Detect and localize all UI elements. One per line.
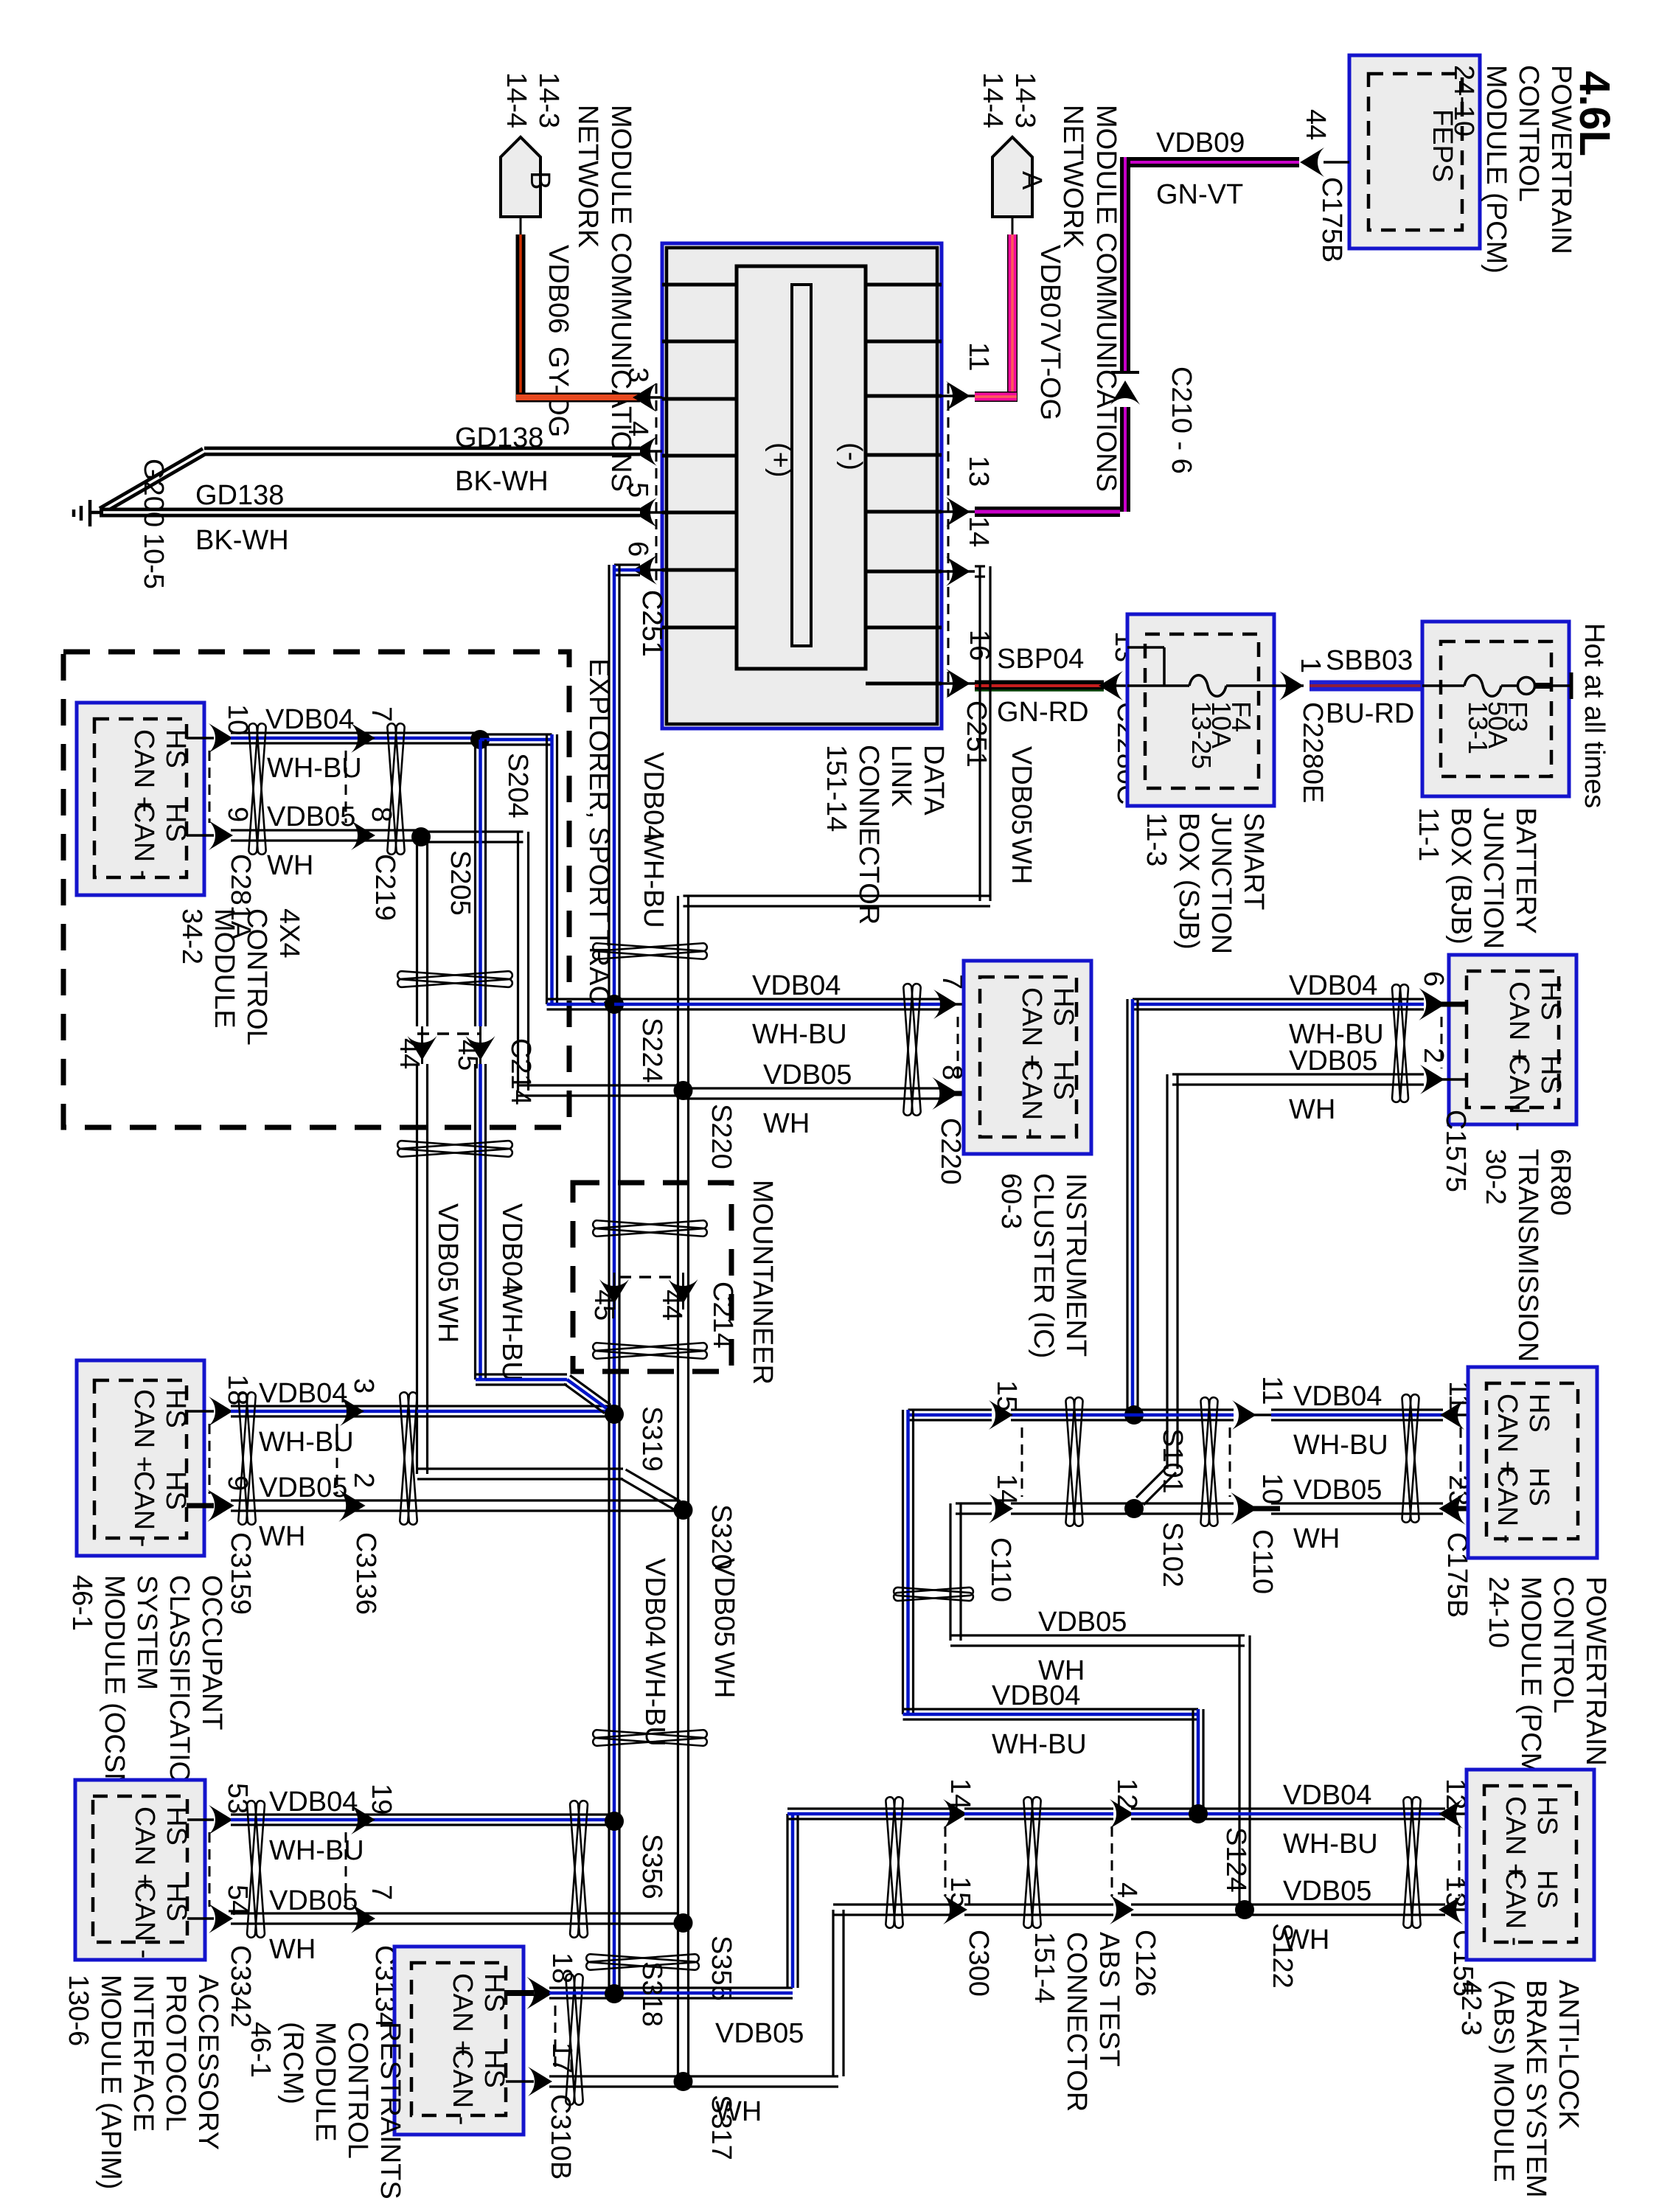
svg-text:VDB05: VDB05 <box>269 1885 358 1916</box>
wire VDB05 drop below C214 <box>416 1064 418 1474</box>
SJB internal wire to fuse <box>1127 684 1189 687</box>
wire GD138 BK-WH pin5 horizontal <box>100 508 640 518</box>
svg-text:S356: S356 <box>636 1834 667 1899</box>
connector C300 dashed <box>945 1826 947 1896</box>
ABS pin 12 arrow <box>1441 1812 1484 1815</box>
SJB pin 13 arrow C2280C <box>1099 671 1123 700</box>
connector C3342 dashed <box>209 1832 211 1907</box>
splice S102 <box>1124 1499 1144 1518</box>
svg-text:8: 8 <box>366 807 397 822</box>
svg-text:S220: S220 <box>706 1104 737 1169</box>
svg-text:18: 18 <box>546 1952 577 1983</box>
wire SBB03 BU-RD <box>1310 681 1422 692</box>
svg-text:7: 7 <box>366 1885 397 1900</box>
wire VDB05 S205 right corner to S220 <box>421 830 524 832</box>
svg-text:C214: C214 <box>505 1038 536 1105</box>
stub from A pentagon <box>1012 217 1014 236</box>
svg-text:GY-OG: GY-OG <box>543 347 574 437</box>
svg-text:C2280E: C2280E <box>1297 702 1328 803</box>
C214 mountaineer pin 45 arrow <box>613 1273 616 1310</box>
C300 pin 15 arrow <box>943 1895 967 1924</box>
wire VDB04 C110-15 corner down <box>908 1408 992 1411</box>
C219 pin 7 arrow <box>351 723 375 753</box>
svg-text:S320: S320 <box>706 1504 737 1570</box>
wire VDB04 OCSM to S319 <box>231 1405 614 1407</box>
svg-text:3: 3 <box>348 1378 379 1394</box>
APIM pin 54 arrow <box>209 1904 233 1933</box>
twisted pair C219 right <box>387 723 405 855</box>
svg-text:GN-VT: GN-VT <box>1156 179 1243 210</box>
svg-text:WH: WH <box>267 850 313 881</box>
PCM pin 11 arrow <box>1443 1413 1486 1416</box>
C300 pin 14 arrow <box>943 1799 967 1829</box>
twisted pair RCM <box>566 1974 583 2105</box>
svg-text:(+): (+) <box>765 442 796 478</box>
DLC pin 3 arrow <box>640 396 662 399</box>
svg-text:BK-WH: BK-WH <box>195 525 289 556</box>
svg-text:VDB04: VDB04 <box>496 1203 527 1292</box>
svg-text:C310B: C310B <box>545 2094 576 2180</box>
svg-text:S224: S224 <box>636 1018 667 1083</box>
svg-text:VDB04: VDB04 <box>259 1378 347 1409</box>
svg-text:VDB05: VDB05 <box>763 1060 852 1091</box>
wire VDB07 VT-OG horizontal into DLC pin 11 <box>975 392 1017 402</box>
wire VDB04 C110 to PCM pin11 <box>1271 1408 1443 1411</box>
DLC inner slot <box>792 285 811 646</box>
6R80 pin 2 arrow <box>1428 1078 1467 1081</box>
wire VDB06 GY-OG vertical <box>516 234 526 402</box>
DLC inner connector body <box>737 266 866 669</box>
wire VDB04 APIM to S356 <box>231 1813 614 1815</box>
svg-text:VDB05: VDB05 <box>709 1558 740 1646</box>
svg-text:WH-BU: WH-BU <box>639 1652 670 1747</box>
svg-text:VDB05: VDB05 <box>715 2018 804 2049</box>
svg-text:VDB04: VDB04 <box>992 1680 1080 1711</box>
MOUNTAINEER dashed box <box>573 1183 731 1371</box>
svg-text:VDB04: VDB04 <box>269 1787 358 1818</box>
svg-text:44: 44 <box>1300 109 1331 140</box>
twisted pair OCSM <box>238 1392 256 1525</box>
stub from B pentagon <box>520 217 522 236</box>
twisted pair on S204/S205 drops lower <box>397 1141 512 1157</box>
SJB pin 1 arrow C2280E <box>1274 684 1304 687</box>
twisted pair APIM <box>247 1801 265 1938</box>
OCSM pin 9 stub <box>187 1503 214 1509</box>
wire VDB04 S204 right corner to S224 <box>480 733 552 735</box>
svg-text:WH-BU: WH-BU <box>267 753 362 784</box>
module APIM box <box>75 1780 205 1960</box>
C126 pin 4 arrow <box>1110 1895 1134 1924</box>
wire VDB05 WH 4X4 to S205 <box>231 829 421 831</box>
wire VDB04 S204-drop corner + diagonal into S319 <box>476 1373 567 1375</box>
twisted pair 4X4 <box>248 723 266 855</box>
twisted pair on S204/S205 drops upper <box>397 971 512 987</box>
connector C214 explorer dashed <box>417 1032 480 1035</box>
svg-text:4.6L: 4.6L <box>1571 71 1618 156</box>
svg-text:S205: S205 <box>445 850 476 916</box>
connector arrow A pentagon <box>992 137 1032 217</box>
svg-text:WH: WH <box>1293 1523 1340 1554</box>
svg-text:WH: WH <box>259 1521 305 1552</box>
APIM pin 54 stub <box>187 1917 214 1920</box>
wire pair C300 to C126 VDB04 <box>964 1807 1113 1809</box>
connector C3134 dashed <box>345 1832 347 1907</box>
twisted pair symbol on main runs above S224 <box>593 943 707 959</box>
svg-text:BK-WH: BK-WH <box>455 466 549 497</box>
wire VDB04 C126 to ABS pin12 via S124 <box>1131 1807 1445 1809</box>
connector C110 left dashed <box>1021 1427 1023 1497</box>
svg-text:11: 11 <box>1256 1376 1287 1405</box>
wire VDB05 C126 to ABS pin13 via S122 <box>1131 1903 1445 1905</box>
wire VDB05 C110 to PCM pin23 <box>1271 1502 1443 1504</box>
twisted pair C3136 right <box>400 1392 417 1525</box>
wire VDB04 main run pin6 to S224 <box>608 565 610 1004</box>
module INSTRUMENT CLUSTER box <box>964 961 1091 1154</box>
fuse F3 50A 13-1 <box>1464 675 1501 697</box>
BJB hot feed stub <box>1534 683 1551 689</box>
inline connector C210-6 bar <box>1111 371 1139 374</box>
svg-text:WH-BU: WH-BU <box>259 1427 354 1458</box>
svg-text:VDB04: VDB04 <box>1293 1381 1382 1412</box>
C219 pin 8 arrow <box>351 821 375 850</box>
svg-text:11: 11 <box>963 342 994 371</box>
connector C3159 dashed <box>209 1424 211 1494</box>
wire VDB04 main run S356 to S318 <box>608 1821 610 1994</box>
twisted pair left of C300 <box>886 1797 903 1928</box>
svg-text:GD138: GD138 <box>455 422 543 453</box>
svg-text:VDB05: VDB05 <box>259 1472 347 1503</box>
svg-text:BU-RD: BU-RD <box>1326 698 1414 729</box>
svg-text:C175B: C175B <box>1316 177 1347 262</box>
svg-text:VDB05: VDB05 <box>1006 746 1037 835</box>
splice S220 <box>674 1081 693 1100</box>
wire VDB04 S204 down pair <box>474 740 476 1026</box>
svg-text:C251: C251 <box>961 700 992 768</box>
twisted pair ABS <box>1403 1797 1421 1928</box>
svg-text:WH-BU: WH-BU <box>752 1019 847 1050</box>
svg-text:9: 9 <box>222 807 253 822</box>
connector C220 dashed <box>957 1017 959 1082</box>
svg-text:VDB05: VDB05 <box>432 1203 463 1292</box>
wire VDB05 main run S220 to S320 <box>677 1091 679 1510</box>
wire VDB07 VT-OG vertical <box>1007 234 1018 402</box>
wire VDB04 main run S319 to S356 <box>608 1414 610 1821</box>
svg-text:45: 45 <box>452 1040 483 1071</box>
svg-text:S124: S124 <box>1220 1827 1251 1893</box>
svg-text:WH-BU: WH-BU <box>1293 1430 1388 1461</box>
svg-text:7: 7 <box>366 706 397 722</box>
EXPLORER SPORT TRAC dashed box <box>63 652 569 1127</box>
splice S317 <box>674 2072 693 2091</box>
wire VDB09 vertical lower segment to pin 13 <box>1120 407 1130 512</box>
connector C110 right dashed <box>1229 1427 1231 1497</box>
SJB internal bus bar <box>1127 646 1164 649</box>
svg-text:C3159: C3159 <box>225 1532 256 1615</box>
svg-text:15: 15 <box>945 1877 975 1907</box>
wire VDB06 GY-OG horizontal into DLC pin 3 <box>516 393 640 403</box>
connector C251 dashed line right <box>947 383 950 697</box>
C214 mountaineer pin 44 arrow <box>682 1273 684 1310</box>
svg-text:WH-BU: WH-BU <box>992 1729 1087 1760</box>
DLC pin 11 arrow <box>942 394 975 397</box>
C110 left pin 14 arrow <box>989 1494 1013 1523</box>
OCSM pin 18 arrow <box>209 1397 233 1426</box>
wire VDB04 S224 to IC pin7 <box>614 998 946 1000</box>
svg-text:14-4: 14-4 <box>977 72 1008 128</box>
svg-text:4: 4 <box>1111 1882 1142 1898</box>
svg-text:13: 13 <box>963 456 994 487</box>
svg-text:VDB04: VDB04 <box>1283 1780 1371 1811</box>
svg-text:C300: C300 <box>963 1930 994 1997</box>
PCM pin 23 arrow <box>1443 1506 1486 1512</box>
svg-text:VDB04: VDB04 <box>265 704 354 735</box>
svg-text:SBB03: SBB03 <box>1326 645 1413 676</box>
wire VDB05 S220 to IC pin8 <box>684 1087 947 1089</box>
connector C310B dashed <box>554 2006 557 2070</box>
inline connector C210-6 arrow <box>1110 380 1140 405</box>
BJB battery junction box <box>1422 622 1569 796</box>
wire VDB04 feed to S124 horizontal <box>903 1708 1199 1710</box>
connector C126 dashed <box>1111 1826 1113 1896</box>
wire VDB05 feed to S122 vertical <box>1238 1635 1240 1910</box>
wire VDB04 row through S101 <box>1011 1408 1134 1411</box>
wire VDB05 6R80 corner and diagonal to S102 <box>1172 1073 1424 1075</box>
svg-text:6: 6 <box>622 541 653 557</box>
svg-text:2: 2 <box>348 1472 379 1488</box>
C110 right pin 10 arrow <box>1231 1492 1257 1525</box>
svg-text:B: B <box>524 171 555 189</box>
fuse F3 terminal circle <box>1501 684 1517 687</box>
wire VDB05 feed to S122 horizontal <box>950 1634 1245 1636</box>
svg-text:VDB05: VDB05 <box>1293 1475 1382 1506</box>
svg-text:S355: S355 <box>706 1935 737 2001</box>
svg-text:S102: S102 <box>1157 1522 1188 1587</box>
wire VDB05 feed vertical from pin14 <box>978 566 981 901</box>
wire VDB05 APIM to S355 <box>231 1912 678 1914</box>
4X4 pin 9 stub <box>187 834 214 837</box>
twisted pair C110 right <box>1200 1397 1218 1526</box>
svg-text:VDB04: VDB04 <box>752 970 841 1001</box>
splice S101 <box>1124 1405 1144 1425</box>
svg-text:C251: C251 <box>636 590 667 657</box>
svg-text:18: 18 <box>222 1374 253 1405</box>
svg-text:C1575: C1575 <box>1440 1110 1471 1192</box>
svg-text:A: A <box>1016 171 1047 190</box>
connector C155 dashed <box>1458 1826 1461 1896</box>
splice S122 <box>1235 1900 1254 1919</box>
pin 44 stub of FEPS <box>1324 161 1349 164</box>
svg-text:2: 2 <box>1418 1048 1449 1063</box>
6R80 pin 6 arrow C1575 <box>1428 1002 1467 1007</box>
APIM pin 53 arrow <box>209 1805 233 1834</box>
svg-text:14: 14 <box>963 516 994 547</box>
svg-text:WH: WH <box>763 1108 810 1139</box>
RCM pin 18 arrow C310B <box>526 1977 553 2009</box>
svg-text:C3136: C3136 <box>350 1532 381 1615</box>
wire VDB05 C110-14 corner down <box>956 1502 992 1504</box>
wire VDB05 pin14 corner segment <box>975 565 985 567</box>
svg-text:4: 4 <box>622 421 653 437</box>
wire VDB09 GN-VT horizontal from FEPS <box>1125 157 1299 167</box>
svg-text:S101: S101 <box>1157 1428 1188 1494</box>
twisted pair symbol on main runs above S318 <box>586 1954 699 1970</box>
twisted pair on C110 feeds <box>894 1587 974 1601</box>
splice S224 <box>605 995 624 1014</box>
svg-text:5: 5 <box>622 482 653 498</box>
svg-text:12: 12 <box>1111 1778 1142 1809</box>
connector C3136 dashed <box>336 1424 338 1494</box>
svg-text:10: 10 <box>1256 1473 1287 1504</box>
wire VDB04 drop below C214 <box>474 1064 476 1380</box>
connector C1575 dashed <box>1441 1017 1443 1068</box>
DLC pin 13 arrow <box>942 510 975 513</box>
svg-text:C110: C110 <box>1247 1529 1278 1594</box>
SJB internal wire fuse to pin1 <box>1226 684 1274 687</box>
BJB internal wire to fuse <box>1422 684 1464 687</box>
twisted pair symbol on main runs mountaineer top <box>593 1220 707 1237</box>
svg-text:1: 1 <box>1295 658 1326 673</box>
twisted pair 6R80 <box>1392 984 1409 1102</box>
svg-text:C281A: C281A <box>225 854 256 940</box>
twisted pair right of C3134 <box>570 1801 588 1938</box>
twisted pair IC <box>903 984 921 1116</box>
DLC pin 16 arrow <box>942 682 975 685</box>
wire VDB04 main run S224 to S319 <box>608 1004 610 1414</box>
module ABS box <box>1467 1770 1594 1960</box>
connector C219 dashed <box>345 751 347 823</box>
svg-text:VT-OG: VT-OG <box>1034 333 1065 420</box>
wire GD138 BK-WH pin4 horizontal <box>204 447 640 456</box>
ABS pin 13 arrow <box>1441 1908 1484 1911</box>
wire VDB04 pin6 corner <box>614 563 640 566</box>
svg-text:44: 44 <box>656 1290 687 1321</box>
splice S124 <box>1189 1804 1208 1823</box>
twisted pair PCM <box>1402 1394 1419 1523</box>
C214 explorer pin 44 arrow <box>421 1026 423 1064</box>
svg-text:VDB04: VDB04 <box>639 1558 670 1646</box>
IC pin 7 arrow <box>933 990 958 1019</box>
svg-text:19: 19 <box>366 1784 397 1815</box>
splice S204 <box>470 730 490 749</box>
wire GD138 BK-WH pin4 diagonal to ground <box>101 451 204 511</box>
wire VDB05 main run S355 to S317 <box>677 1923 679 2081</box>
svg-text:(-): (-) <box>836 442 867 470</box>
splice S320 <box>674 1500 693 1520</box>
wire VDB05 main run jog to S220 <box>677 896 679 1091</box>
svg-text:WH-BU: WH-BU <box>638 833 669 928</box>
splice S318 <box>605 1984 624 2003</box>
ground G200 <box>88 500 92 526</box>
pin 44 arrow C175B <box>1300 147 1324 177</box>
svg-text:VDB05: VDB05 <box>1289 1046 1377 1077</box>
svg-text:14: 14 <box>991 1474 1022 1505</box>
svg-text:14-4: 14-4 <box>501 72 532 128</box>
svg-text:VDB04: VDB04 <box>638 752 669 841</box>
OCSM pin 9 arrow <box>207 1489 234 1522</box>
svg-text:VDB04: VDB04 <box>1289 970 1377 1001</box>
svg-text:WH-BU: WH-BU <box>269 1835 364 1866</box>
svg-text:VDB06: VDB06 <box>543 245 574 333</box>
svg-text:WH: WH <box>709 1652 740 1698</box>
connector C175B dashed at PCM <box>1460 1427 1462 1497</box>
DLC left pin lines <box>662 283 737 287</box>
wire VDB05 main run S320 to S355 <box>677 1510 679 1923</box>
svg-text:6: 6 <box>1418 971 1449 987</box>
4X4 pin 9 arrow <box>209 821 233 850</box>
C110 left pin 15 arrow <box>989 1400 1013 1430</box>
DLC right pin lines <box>866 283 942 287</box>
svg-text:WH: WH <box>715 2096 762 2127</box>
svg-text:VDB05: VDB05 <box>1038 1607 1127 1638</box>
module OCSM box <box>77 1360 204 1556</box>
C110 right pin 11 arrow <box>1232 1400 1256 1430</box>
svg-text:VDB05: VDB05 <box>1283 1876 1371 1907</box>
svg-text:C219: C219 <box>369 854 400 921</box>
module 6R80 TRANSMISSION box <box>1449 955 1576 1124</box>
svg-text:WH-BU: WH-BU <box>1283 1829 1378 1860</box>
twisted pair symbol on main runs mountaineer bottom <box>593 1343 707 1359</box>
svg-text:15: 15 <box>991 1380 1022 1411</box>
wire VDB09 vertical upper segment <box>1120 157 1130 372</box>
svg-text:WH-BU: WH-BU <box>496 1287 527 1382</box>
wire VDB05 OCSM to S320 <box>231 1499 678 1501</box>
module FEPS (fuel pump driver) box <box>1349 55 1480 248</box>
svg-text:SBP04: SBP04 <box>997 644 1084 675</box>
svg-text:S204: S204 <box>502 753 533 818</box>
svg-text:G200: G200 <box>138 459 169 527</box>
wire VDB05 RCM to S317 and corner right <box>549 2075 838 2077</box>
svg-text:S318: S318 <box>636 1961 667 2027</box>
RCM pin 17 arrow <box>528 2067 552 2096</box>
4X4 pin 10 stub <box>187 737 214 740</box>
wire VDB04 RCM to S318 and corner right <box>549 1986 793 1989</box>
wire pair C300 to C126 VDB05 <box>964 1903 1113 1905</box>
module PCM box <box>1468 1367 1597 1558</box>
twisted pair C110 left <box>1065 1397 1083 1526</box>
svg-text:VDB05: VDB05 <box>267 801 355 832</box>
svg-text:14: 14 <box>945 1778 975 1809</box>
fuse F4 10A 13-25 <box>1189 675 1226 697</box>
C3136 pin 2 arrow <box>338 1489 365 1522</box>
wire VDB05 riser corner to C300-15 <box>833 1903 951 1905</box>
wire VDB05 row through S102 <box>1011 1502 1134 1504</box>
wire VDB05 feed horizontal jog <box>684 894 991 897</box>
wire VDB04 feed to S124 vertical <box>1192 1709 1194 1814</box>
svg-text:3: 3 <box>622 367 653 383</box>
DLC pin 14 arrow <box>942 570 975 573</box>
DLC pin 6 arrow <box>640 568 662 571</box>
C3136 pin 3 arrow <box>340 1397 364 1426</box>
svg-text:C214: C214 <box>707 1281 738 1349</box>
svg-text:14-3: 14-3 <box>1009 72 1040 128</box>
svg-text:WH: WH <box>432 1296 463 1343</box>
svg-text:WH: WH <box>269 1934 316 1965</box>
DLC data link connector box <box>662 243 942 728</box>
module RCM box <box>394 1947 524 2135</box>
svg-text:C210 - 6: C210 - 6 <box>1166 366 1197 474</box>
svg-text:S122: S122 <box>1267 1923 1298 1989</box>
svg-text:GN-RD: GN-RD <box>997 697 1089 728</box>
svg-text:EXPLORER, SPORT TRAC: EXPLORER, SPORT TRAC <box>583 658 614 1006</box>
DLC pin 5 arrow <box>640 511 662 514</box>
splice S355 <box>674 1913 693 1933</box>
RCM pin 18 stub bold <box>506 1990 534 1996</box>
svg-text:C110: C110 <box>985 1537 1016 1602</box>
DLC pin 4 arrow <box>640 450 662 453</box>
svg-text:VDB07: VDB07 <box>1034 245 1065 333</box>
module 4X4 CONTROL MODULE box <box>77 703 204 895</box>
svg-text:Hot at all times: Hot at all times <box>1579 623 1610 808</box>
